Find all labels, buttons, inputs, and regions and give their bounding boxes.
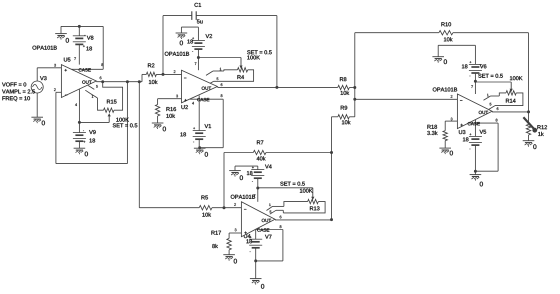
pin 2 number U5: [54, 88, 56, 91]
junction dot U3 output: [527, 110, 530, 113]
pin 6 number U4: [280, 216, 282, 219]
pin 7 number U3: [471, 85, 473, 88]
label U2: [181, 105, 187, 109]
pin 6 number U5: [100, 77, 102, 80]
resistor R9 10k: [332, 106, 355, 125]
wire R10 feedback top: [355, 32, 439, 34]
junction dot V4 wiper tap: [256, 187, 259, 190]
wire CASE pin 8 of U5: [68, 26, 104, 69]
junction dot U4 pin 2 node: [223, 206, 226, 209]
wire pin 7 stem U4: [257, 188, 259, 202]
battery V8 18V: [73, 26, 94, 64]
label CASE U5: [79, 68, 91, 71]
junction dot V5 ground node: [474, 170, 477, 173]
label 100K for R14: [510, 76, 523, 80]
ground below R16 (node 0): [152, 123, 166, 131]
trim stubs pins 1,5 of U2: [206, 68, 224, 86]
pin 4 number U2: [192, 102, 194, 105]
wire R16 to pin 3 of U2: [158, 99, 182, 105]
wire U2 output row: [217, 86, 337, 88]
wiper wire of R4: [198, 58, 242, 69]
wire U4 output row: [275, 219, 332, 221]
label SET = 0.5 for R15: [113, 123, 138, 127]
wiper wire of R14: [475, 82, 512, 92]
wire pin 4 of U4 to V7: [255, 230, 257, 239]
junction dot R2/C1 node: [162, 73, 165, 76]
potentiometer R4 box: [214, 68, 254, 82]
plus mark U3: [460, 124, 462, 126]
minus mark U2: [184, 77, 186, 79]
junction dot V8/ground bus: [78, 25, 81, 28]
pin 3 number U5: [54, 64, 56, 67]
minus mark U5: [65, 94, 67, 96]
wire U5 output row: [96, 74, 142, 81]
pin 7 number U4: [254, 194, 256, 197]
ground below R18 (node 0): [439, 148, 453, 155]
minus mark U4: [244, 208, 246, 210]
pin 8 number U4: [280, 225, 282, 228]
label VOFF = 0: [2, 82, 26, 86]
ground below V1 (node 0): [194, 148, 208, 156]
resistor R12 1k: [526, 112, 547, 141]
label OUT U2: [202, 87, 211, 90]
ground below R12 (node 0): [523, 141, 537, 149]
label 100K for R4: [247, 55, 260, 59]
pin 3 number U3: [451, 118, 453, 121]
potentiometer R14 box: [495, 91, 523, 106]
junction dot R7 node: [330, 151, 333, 154]
resistor R2 10k: [142, 63, 182, 84]
resistor R17 8k: [211, 231, 231, 255]
label SET = 0.5 for R4: [247, 50, 272, 54]
pin 2 number U3: [451, 95, 453, 98]
wire U5 out down to R5 row: [139, 82, 199, 208]
pin 4 number U5: [75, 103, 77, 106]
wire V2 top bus: [181, 26, 198, 28]
junction dot V- wiper tap U5: [78, 121, 81, 124]
label U4: [244, 234, 251, 238]
wire pin 4 of U2 to V1: [198, 96, 200, 131]
wire R10 down to U3 output: [528, 33, 530, 112]
ground below V5 (node 0): [470, 171, 483, 186]
ground below V3 (node 0): [31, 117, 45, 125]
ground below R17 (node 0): [223, 255, 237, 264]
label OPA101B for U4: [231, 195, 255, 199]
wire V3 to ground: [36, 93, 38, 117]
wiper arrow of R15: [79, 113, 110, 122]
wire R7/U4 inverting input: [223, 153, 225, 208]
battery V7 18V: [246, 235, 271, 261]
op-amp U4 OPA101B: [241, 202, 275, 237]
label VAMPL = 2.5: [2, 89, 35, 93]
resistor R16 10k: [155, 105, 176, 123]
wire V4 top bus: [235, 165, 258, 167]
label CASE U3: [468, 122, 480, 125]
label U3: [459, 130, 465, 134]
ground below V7 (node 0): [250, 279, 264, 289]
op-amp U5 OPA101B: [61, 65, 96, 98]
plus mark U5: [65, 69, 67, 71]
label 100K for R13: [300, 189, 313, 193]
wire to pin 2 of U3: [355, 98, 458, 100]
resistor R5 10k: [199, 196, 241, 217]
wire vertical node R8/R9: [354, 33, 356, 117]
label OPA101B for U5: [32, 46, 56, 50]
resistor R10 10k: [439, 22, 529, 41]
junction dot V1 ground node: [198, 146, 201, 149]
junction dot U5 out a: [101, 80, 104, 83]
junction dot V6 wiper tap: [474, 80, 477, 83]
potentiometer R15 box: [98, 82, 123, 113]
junction dot U4 output corner: [330, 218, 333, 221]
wire pin 7 stem U3: [474, 81, 476, 94]
wire R17 to pin 3 of U4: [229, 233, 241, 238]
ground above U3 (node 0): [432, 45, 447, 64]
label SET = 0.5 for R14: [478, 74, 503, 78]
junction dot R8 right: [353, 86, 356, 89]
battery V5 18V: [463, 130, 486, 171]
junction dot U5 out c: [138, 80, 141, 83]
pin 6 number U3: [497, 107, 499, 110]
battery V6 18V: [462, 45, 486, 81]
label 100K for R15: [116, 118, 129, 122]
battery V4 18V: [247, 165, 272, 188]
label FREQ = 10: [2, 96, 29, 101]
ground above U4 (node 0): [229, 166, 243, 180]
label OPA101B for U3: [433, 87, 457, 91]
minus mark U3: [460, 99, 462, 101]
label U5: [64, 58, 70, 62]
wire pin 4 of U5 to V9: [78, 89, 80, 132]
wire pin 4 of U3 to V5: [474, 120, 476, 137]
capacitor C1 5u: [163, 3, 277, 88]
ground above U2 (node 0): [176, 27, 188, 45]
pin 3 number U2: [176, 95, 178, 98]
label OPA101B for U2: [165, 52, 189, 56]
wire V7 to ground: [255, 261, 257, 279]
battery V2 18V: [187, 27, 212, 57]
junction dot U3 input node: [353, 98, 356, 101]
wiper wire of R13: [258, 188, 315, 200]
wire V3 to pin 3 of U5: [37, 68, 61, 81]
op-amp U2 OPA101B: [182, 70, 218, 103]
pin 8 number U3: [496, 119, 498, 122]
battery V1 18V: [180, 124, 211, 148]
wire CASE pin 8 of U2: [190, 99, 223, 148]
wire top bus of U5 supply: [61, 25, 103, 27]
wire CASE pin 8 of U4: [256, 230, 283, 261]
label OUT U3: [479, 111, 488, 114]
wire CASE pin 8 of U3: [468, 123, 498, 171]
resistor R7 40k: [224, 140, 332, 160]
op-amp U3 OPA101B: [457, 94, 492, 129]
label SET = 0.5 for R13: [280, 182, 305, 186]
wire pin 7 stem U2: [197, 58, 199, 71]
resistor R18 3.3k: [427, 125, 447, 148]
junction dot V2 wiper tap: [197, 56, 200, 59]
wire U5 feedback to pin 2: [56, 82, 128, 164]
label CASE U2: [197, 98, 209, 101]
trim stubs pins 5,1 of U5: [85, 85, 98, 98]
ground below V9 (node 0): [74, 148, 88, 156]
label OUT U5: [82, 80, 91, 83]
pin 2 number U4: [234, 203, 236, 206]
pin 7 number U5: [74, 57, 76, 60]
wire U3 output row: [492, 111, 528, 113]
resistor R8 10k: [338, 77, 355, 95]
sine source V3: [31, 76, 46, 93]
junction dot U5 out b: [126, 80, 129, 83]
pin 7 number U2: [195, 62, 197, 65]
pin 8 number U2: [221, 94, 223, 97]
junction dot V7 ground node: [254, 259, 257, 262]
pin 3 number U4: [235, 229, 237, 232]
ground (top-left, node 0): [55, 26, 69, 42]
pin 6 number U2: [221, 83, 223, 86]
trim stubs pins 1,5 of U4: [267, 204, 284, 215]
label CASE U4: [257, 228, 269, 231]
pin 2 number U2: [174, 70, 176, 73]
wire R9 down to U4 output: [331, 117, 333, 220]
wire V6 top bus: [438, 44, 475, 46]
label OUT U4: [262, 219, 271, 222]
plus mark U2: [184, 99, 186, 101]
wire R18 to pin 3 of U3: [445, 121, 457, 131]
trim stubs pins 1,5 of U3: [484, 94, 500, 111]
pin 8 number U5: [101, 63, 103, 66]
junction dot C1 to U2 output: [275, 86, 278, 89]
voltage probe marker: [523, 117, 537, 132]
battery V9 18V: [73, 130, 96, 148]
potentiometer R13 box: [283, 199, 325, 213]
plus mark U4: [244, 232, 246, 234]
